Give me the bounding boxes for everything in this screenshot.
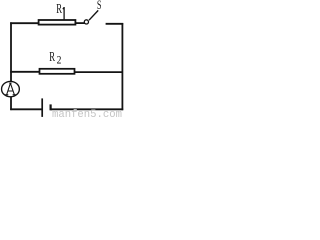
- node junction left (R2 branch): [10, 71, 39, 73]
- svg-text:manfen5.com: manfen5.com: [52, 109, 122, 119]
- wire top-left segment: [10, 22, 38, 24]
- svg-text:R: R: [49, 50, 55, 65]
- wire bottom-right segment: [51, 108, 124, 110]
- switch S contact circle: [84, 20, 88, 24]
- switch S blade: [89, 10, 98, 20]
- svg-text:2: 2: [57, 53, 62, 67]
- ammeter A: [2, 81, 20, 96]
- label R1: [56, 2, 64, 20]
- wire switch to top-right corner: [106, 23, 124, 25]
- battery positive plate (long): [41, 98, 43, 117]
- svg-text:R: R: [56, 2, 62, 17]
- label S: [97, 0, 102, 12]
- watermark "manfen5.com": [52, 109, 122, 121]
- wire bottom-left segment: [10, 108, 42, 110]
- wire R2 to right vertical: [75, 71, 123, 73]
- label R2: [49, 50, 61, 66]
- resistor R1: [39, 20, 76, 25]
- svg-text:S: S: [97, 0, 102, 12]
- resistor R2: [40, 69, 75, 74]
- battery negative plate (short): [49, 104, 51, 110]
- wire left vertical lower: [10, 96, 12, 110]
- wire left vertical upper: [10, 22, 12, 82]
- wire R1 to switch: [76, 22, 85, 24]
- wire right vertical: [121, 23, 123, 110]
